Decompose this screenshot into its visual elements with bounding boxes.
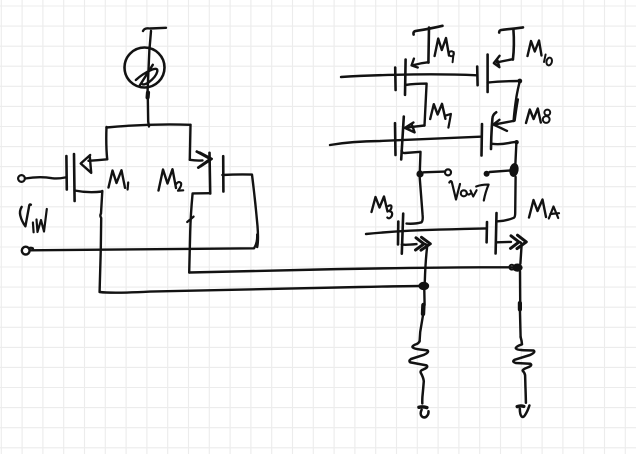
label M1: [109, 170, 126, 188]
wire M10 to M8 doubled: [514, 81, 520, 121]
wire gate row M9-M10: [341, 74, 477, 77]
transistor M7 drain arrow: [407, 126, 425, 128]
node open circle Vout: [445, 169, 451, 175]
node dot Vout right: [484, 171, 490, 177]
node dot M8 source: [514, 140, 518, 144]
supply T terminal of M10: [499, 27, 523, 32]
tick on M2 drain wire: [187, 217, 193, 222]
wire VIN to M2 gate: [30, 235, 257, 251]
wire M3 source down: [424, 244, 427, 282]
node dot Vout left: [416, 170, 423, 177]
transistor M10 channel bar: [486, 55, 489, 93]
wire M8 source right and down: [492, 142, 514, 144]
transistor M2 channel bar: [208, 153, 211, 194]
label M4: [529, 200, 546, 218]
node blob M8/M4 junction: [508, 162, 519, 177]
current source I1 circle: [125, 48, 165, 88]
wire M3 drain from Vout node: [407, 178, 423, 224]
resistor R1: [409, 341, 428, 404]
transistor M9 source arrow: [414, 62, 429, 65]
wire M2 source from tail: [190, 159, 203, 162]
ground curl right: [517, 404, 524, 408]
transistor M8 drain arrow: [496, 121, 514, 124]
wire M1 drain to M3 source (long): [100, 286, 421, 293]
transistor M2 gate bar: [222, 156, 225, 191]
wire M3 junction down to R1: [423, 290, 426, 305]
wire M4 source down: [519, 242, 522, 264]
supply T terminal of M9: [413, 26, 442, 35]
transistor M3 gate bar: [397, 222, 400, 245]
wire M4 junction down to R2: [519, 272, 522, 304]
wire tail left drop to M1: [105, 127, 108, 159]
node dot M3/R1 junction: [418, 282, 429, 290]
wire tail right drop to M2: [189, 125, 192, 160]
label M3: [372, 197, 388, 213]
label M9: [435, 38, 449, 56]
wire M2 gate loop right and down: [222, 174, 258, 247]
transistor M3 channel bar: [402, 214, 403, 254]
wire tail node top horizontal: [107, 124, 191, 127]
transistor M10 source arrow: [497, 59, 513, 62]
wire gate row M3-M4: [366, 228, 487, 234]
transistor M1 gate bar: [65, 156, 68, 190]
label Vout: [449, 181, 460, 199]
transistor M8 channel bar (hooked top): [491, 112, 496, 149]
label M8: [526, 109, 541, 124]
wire M9 drain down to M7: [405, 84, 426, 126]
transistor M10 gate bar: [476, 67, 479, 86]
wire M2 drain down: [189, 193, 210, 272]
ground curl left: [419, 405, 427, 409]
transistor M4 source double arrow: [497, 241, 511, 244]
wire input to M1 gate: [25, 177, 65, 178]
current source I1 arrow: [140, 65, 153, 86]
transistor M1 source arrow: [89, 159, 108, 161]
resistor R2: [513, 337, 534, 403]
wire M1 drain down: [75, 191, 103, 193]
transistor M1 channel bar: [73, 154, 76, 201]
transistor M9 gate bar: [394, 68, 397, 91]
node input terminal of M1: [18, 175, 25, 182]
wire M4 drain from Vout node: [498, 177, 516, 221]
label VIN: [20, 204, 31, 226]
supply tick above current source: [143, 28, 166, 31]
wire Vout left: [424, 170, 446, 173]
transistor M3 source double arrow: [402, 243, 417, 246]
wire M2 drain to M4 source (long): [189, 267, 512, 272]
wire supply to current source: [150, 31, 152, 49]
transistor M8 gate bar: [480, 124, 483, 156]
wire M10 drain down: [488, 81, 519, 83]
wire M7 source down to Vout node: [402, 151, 421, 172]
wire through current source: [148, 47, 150, 93]
node blob M4/R2 junction: [509, 265, 514, 270]
wire Vout right: [490, 171, 510, 173]
transistor M2 source double arrow: [197, 152, 212, 168]
label M10: [528, 41, 542, 57]
transistor M7 gate bar: [394, 123, 397, 155]
transistor M7 channel bar: [401, 117, 404, 160]
transistor M4 gate bar: [485, 222, 488, 242]
transistor M9 channel bar: [404, 60, 407, 95]
node VIN terminal: [22, 247, 30, 255]
node dot M10 drain: [517, 79, 522, 84]
label M2: [159, 169, 177, 190]
label M7: [430, 104, 445, 119]
transistor M4 channel bar: [494, 213, 497, 254]
wire gate row M7-M8: [330, 137, 480, 145]
